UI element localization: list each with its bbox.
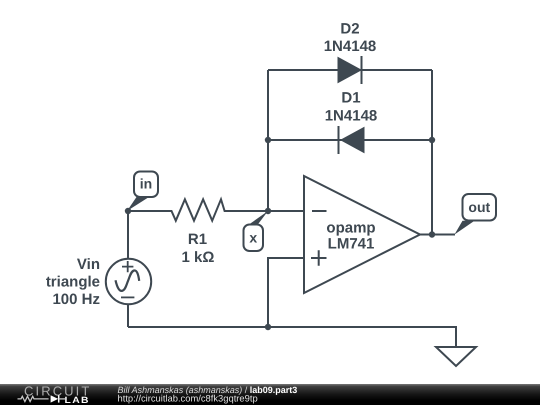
svg-text:1N4148: 1N4148 bbox=[324, 38, 377, 55]
svg-text:R1: R1 bbox=[188, 231, 207, 248]
svg-text:1 kΩ: 1 kΩ bbox=[182, 249, 215, 266]
svg-text:D1: D1 bbox=[341, 90, 360, 107]
svg-text:1N4148: 1N4148 bbox=[325, 108, 378, 125]
svg-text:triangle: triangle bbox=[46, 274, 100, 291]
svg-text:http://circuitlab.com/c8fk3gqt: http://circuitlab.com/c8fk3gqtre9tp bbox=[118, 392, 258, 403]
svg-text:Vin: Vin bbox=[77, 256, 100, 273]
svg-text:LM741: LM741 bbox=[328, 236, 375, 253]
svg-text:D2: D2 bbox=[340, 21, 359, 38]
svg-text:in: in bbox=[140, 176, 152, 192]
svg-text:out: out bbox=[468, 199, 490, 215]
svg-text:opamp: opamp bbox=[326, 220, 375, 237]
svg-text:LAB: LAB bbox=[65, 395, 90, 405]
svg-text:100 Hz: 100 Hz bbox=[52, 291, 100, 308]
svg-text:x: x bbox=[249, 230, 257, 246]
